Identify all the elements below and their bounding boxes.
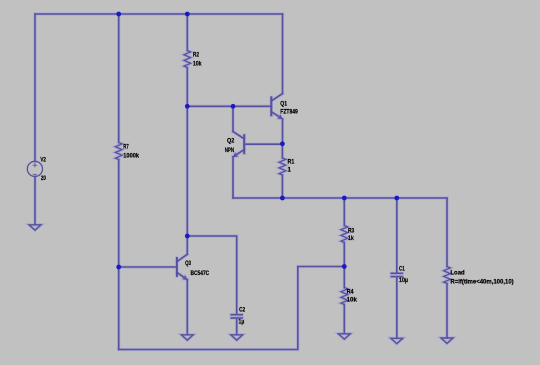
wire V2 to ground	[34, 177, 36, 225]
svg-text:1k: 1k	[348, 235, 354, 242]
wire R1 bottom lead	[281, 175, 283, 198]
svg-text:BC547C: BC547C	[191, 270, 210, 277]
resistor R4	[341, 288, 348, 305]
wire R2 to base node	[186, 68, 188, 107]
ground (Load)	[441, 338, 453, 343]
resistor R7	[115, 143, 122, 160]
ground (R4)	[338, 334, 350, 339]
wire R2 column top	[186, 14, 188, 51]
node mid rail / R3	[342, 196, 347, 201]
wire Q2 base to node	[244, 143, 282, 145]
wire C2 to ground	[236, 318, 238, 335]
wire feedback tap	[119, 267, 345, 350]
svg-text:20: 20	[41, 175, 46, 182]
wire Load top lead	[446, 198, 448, 267]
node base rail / Q2 collector	[231, 104, 236, 109]
capacitor C2	[231, 315, 242, 318]
resistor Load	[444, 267, 451, 284]
node top rail / R7	[116, 12, 121, 17]
wire Q2 collector up	[232, 106, 234, 131]
wire C1 top lead	[396, 198, 398, 273]
wire R1 top lead	[281, 144, 283, 158]
svg-text:Q3: Q3	[185, 260, 191, 267]
node R7 / Q3 base / feedback	[116, 265, 121, 270]
svg-text:R7: R7	[123, 143, 129, 150]
ground (Q3)	[181, 335, 193, 340]
wire Q3 emitter to ground	[186, 280, 188, 335]
wire Q3 collector node to C2	[187, 236, 236, 314]
wire base node down to Q3 collector node	[186, 106, 188, 236]
wire R3 to divider node	[343, 243, 345, 288]
capacitor C1	[391, 273, 402, 276]
node divider R3/R4	[342, 264, 347, 269]
svg-text:R1: R1	[288, 159, 295, 166]
svg-text:NPN: NPN	[225, 147, 235, 154]
node mid rail / R1	[280, 196, 285, 201]
svg-text:10k: 10k	[347, 297, 358, 304]
svg-text:R=if(time<40m,100,10): R=if(time<40m,100,10)	[450, 279, 513, 286]
svg-text:R3: R3	[348, 228, 355, 235]
wire base rail to Q1	[187, 105, 271, 107]
resistor R1	[279, 158, 286, 175]
svg-text:C1: C1	[399, 266, 405, 273]
wire Q3 base	[119, 266, 177, 268]
wire mid rail	[233, 197, 447, 199]
svg-text:R4: R4	[347, 289, 354, 296]
wire R7 column lower	[118, 160, 120, 350]
wire Load to ground	[446, 284, 448, 339]
transistor Q1	[271, 94, 282, 119]
svg-text:1: 1	[288, 167, 292, 174]
node Q1 emitter / Q2 base / R1	[280, 141, 285, 146]
ground (C2)	[231, 335, 243, 340]
transistor Q3	[177, 254, 187, 279]
wire Q2 emitter down	[232, 157, 234, 198]
svg-text:Q2: Q2	[227, 138, 235, 145]
svg-text:10k: 10k	[193, 60, 202, 67]
node base rail / R2	[185, 104, 190, 109]
ground (V2)	[29, 225, 41, 230]
wire top rail	[35, 13, 283, 15]
wire Q3 collector up	[186, 236, 188, 254]
node Q3 collector / C2	[185, 234, 190, 239]
ground (C1)	[391, 338, 403, 343]
svg-text:R2: R2	[193, 51, 200, 58]
wire Q1 emitter down	[282, 119, 284, 144]
svg-text:C2: C2	[239, 307, 245, 314]
transistor Q2 (mirrored)	[233, 132, 244, 157]
wire R7 column upper	[118, 14, 120, 143]
resistor R2	[184, 51, 191, 68]
svg-text:10µ: 10µ	[399, 277, 408, 284]
svg-text:V2: V2	[40, 157, 46, 164]
voltage source V2	[27, 161, 42, 176]
svg-text:Load: Load	[450, 269, 465, 276]
resistor R3	[341, 226, 348, 243]
wire R4 to ground	[343, 305, 345, 334]
svg-text:1000k: 1000k	[123, 152, 139, 159]
svg-text:FZT849: FZT849	[280, 108, 298, 115]
wire C1 to ground	[396, 277, 398, 338]
wire R3 top lead	[343, 198, 345, 226]
node mid rail / C1	[394, 196, 399, 201]
wire Q1 collector up	[282, 14, 284, 94]
svg-text:Q1: Q1	[280, 100, 287, 107]
node top rail / R2	[185, 12, 190, 17]
wire V2 column top	[34, 14, 36, 161]
svg-text:1µ: 1µ	[239, 319, 245, 326]
